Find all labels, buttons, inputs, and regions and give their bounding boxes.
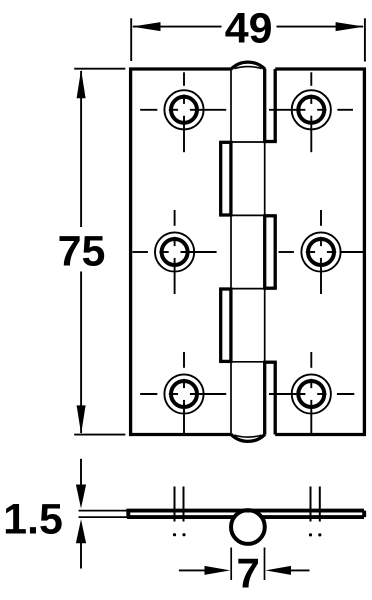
pin dome top <box>231 62 265 69</box>
left leaf plate <box>131 69 231 435</box>
dimension 7 extension line right <box>264 548 266 581</box>
knuckle 4 slot (left side) <box>219 289 232 362</box>
dimension 75 line <box>80 71 82 227</box>
dimension 1.5 leader bottom <box>80 543 82 569</box>
knuckle 3 slot (right side, middle) <box>263 215 277 288</box>
bottom view: screw hole line right a <box>310 487 312 522</box>
svg-text:75: 75 <box>58 228 106 276</box>
dimension 75 arrow bottom <box>77 405 86 434</box>
dimension 1.5 arrow up <box>76 519 86 543</box>
dimension 1.5 leader top <box>80 459 82 487</box>
hinge pin barrel right tangent line <box>264 68 266 436</box>
screw hole top-left <box>140 72 226 152</box>
pin top chamfer arc <box>234 67 261 69</box>
bottom view: hidden dots left <box>173 533 176 536</box>
dimension 49 arrow left <box>132 22 161 31</box>
bottom view: screw hole line left b <box>183 487 185 522</box>
svg-text:1.5: 1.5 <box>3 496 63 544</box>
screw hole bottom-right <box>269 352 354 434</box>
dimension 49 arrow right <box>336 22 365 31</box>
dimension 75 extension line top <box>74 68 125 70</box>
hinge pin barrel left tangent line <box>230 68 232 436</box>
dimension 75 extension line bottom <box>74 434 125 436</box>
dimension 7 leader left <box>179 569 206 571</box>
pin dome bottom <box>231 434 265 441</box>
dimension 1.5 extension line bottom <box>79 516 129 518</box>
knuckle joint line 1 <box>231 141 265 143</box>
knuckle joint line 2 <box>231 214 265 216</box>
dimension 7 extension line left <box>230 548 232 581</box>
dimension 75 arrow top <box>77 70 86 99</box>
bottom view: leaf cross-section bar outline <box>128 511 364 517</box>
knuckle joint line 3 <box>231 288 265 290</box>
knuckle 1 slot (right side, top) <box>263 69 277 142</box>
bottom view: leaf cross-section bar bottom line <box>127 515 364 519</box>
right leaf plate <box>275 69 364 435</box>
bottom view: knuckle circle <box>231 510 265 544</box>
dimension 49 extension line left <box>130 18 132 61</box>
bottom view: hidden dots right <box>309 533 312 536</box>
knuckle 5 slot (right side, bottom) <box>263 362 277 435</box>
screw hole middle-left <box>133 210 217 294</box>
dimension 7 arrow left <box>205 566 231 575</box>
screw hole bottom-left <box>140 352 226 434</box>
bottom view: screw hole line left a <box>174 487 176 522</box>
screw hole top-right <box>269 72 353 152</box>
dimension 49 line <box>133 26 222 28</box>
knuckle 2 slot (left side) <box>219 142 232 215</box>
dimension 1.5 extension line top <box>79 510 129 512</box>
svg-text:49: 49 <box>225 4 273 52</box>
dimension 49 extension line right <box>364 18 366 61</box>
bottom view: screw hole line right b <box>319 487 321 522</box>
dimension 7 leader right <box>290 569 310 571</box>
dimension 1.5 arrow down <box>76 485 86 509</box>
svg-text:7: 7 <box>237 550 260 597</box>
screw hole middle-right <box>279 210 364 294</box>
dimension 7 arrow right <box>265 566 291 575</box>
knuckle joint line 4 <box>231 361 265 363</box>
pin bottom chamfer arc <box>234 435 261 437</box>
